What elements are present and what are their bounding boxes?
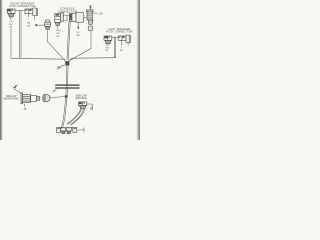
inline connector hex [43,94,50,101]
label SIDE CAR SPEAKER [75,94,87,100]
label SIDE CAR HEADPHONES [3,95,19,100]
accessory plug component [36,20,51,29]
svg-text:SPEAKER: SPEAKER [75,97,87,100]
paper background [0,0,140,140]
svg-text:GN: GN [105,47,109,49]
antenna tip [90,6,92,10]
wire from D [121,40,123,45]
inline connector olive [88,26,93,31]
junction dot on trunk [65,95,68,98]
wire from connector B [28,14,30,18]
console connector right housing U2 [69,12,83,22]
right page edge band [136,0,140,140]
label LEFT SPEAKER POD CONNECTOR [106,27,132,34]
label RIGHT SPEAKER POD CONNECTOR [9,2,35,9]
left page edge band [0,0,3,140]
console connector left housing U1 [55,13,64,26]
svg-text:GN: GN [9,21,13,23]
svg-text:HEADPHONES: HEADPHONES [3,98,19,101]
wire console to antenna [84,16,87,18]
leader to assembly [78,129,85,131]
svg-text:GN: GN [57,33,61,35]
wire from connector A [10,17,12,20]
headphone jack assembly [21,93,40,104]
wire A continues down [10,28,12,58]
wire from C [106,44,108,46]
wire between C and D [112,36,118,38]
twisted pair to speaker [67,109,81,125]
wire labels under B [27,20,30,28]
connector D (left speaker pod, right housing) [118,35,130,43]
sidecar speaker connector [79,102,87,109]
connector B (right speaker pod, right housing) [25,8,37,16]
wire from antenna to junction [68,31,91,62]
svg-text:POD CONNECTOR: POD CONNECTOR [106,30,132,34]
left pod run to junction [68,58,115,62]
sidecar speaker connector assembly (bottom) [56,128,77,134]
wire run to junction [11,57,65,60]
svg-text:POD CONNECTOR: POD CONNECTOR [9,4,35,8]
leader to label 18 [93,12,98,14]
svg-text:Y/BK: Y/BK [56,30,62,32]
junction splice [65,61,69,65]
clamp bars [55,84,79,86]
wire between A and B [15,9,25,11]
svg-text:GY: GY [77,32,81,34]
labels under console left [56,30,62,38]
labels under arrow [77,32,81,37]
sidecar headphone plug symbol [14,86,16,88]
hook right of speaker connector [87,104,93,108]
trunk lower curve into speaker assembly [61,119,63,128]
wire from hex to trunk [50,96,66,98]
svg-text:BN: BN [9,24,12,26]
tiny label right of accessory wire [49,30,51,32]
harness pair from left pod [113,37,115,58]
label 18 under jack [23,104,25,107]
junction curl clamp [60,65,65,68]
wire from accessory down and diagonal to junction [47,29,65,61]
antenna base barrel [86,10,93,12]
trunk harness pair down [65,65,68,96]
connector A (right speaker pod, left housing) [7,9,15,17]
wire from console left [57,26,59,29]
antenna assembly [86,6,97,31]
tick below clamp [53,90,57,93]
bracket wires console [64,14,70,16]
svg-text:(18: (18 [99,12,103,16]
connector C (left speaker pod, left housing) [104,36,112,44]
harness pair from speaker pod [19,10,21,58]
label CONSOLE CONNECTOR [58,7,77,14]
cable from plug to jack [14,89,21,94]
wire labels under A [9,21,13,29]
trunk pair from console down to junction [67,22,69,60]
wire with arrow from console right [77,22,79,27]
